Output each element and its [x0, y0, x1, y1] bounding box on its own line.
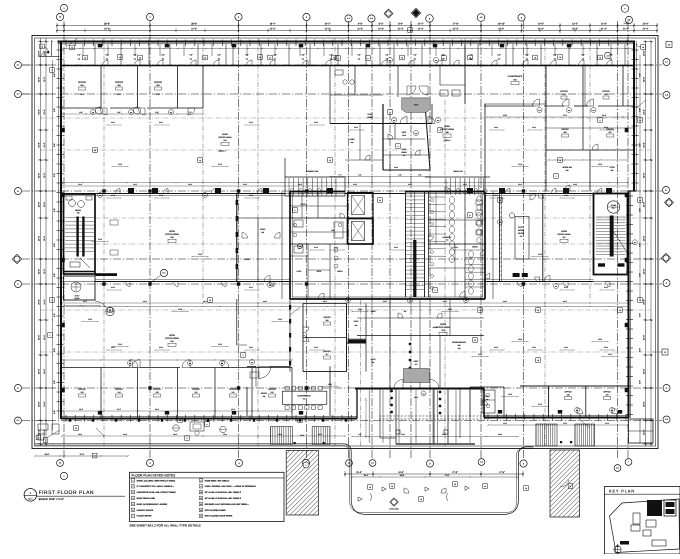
svg-text:24'-8": 24'-8" [38, 50, 41, 56]
sheet border inner [35, 38, 656, 446]
svg-text:9'-8": 9'-8" [53, 380, 56, 384]
terrace circles [173, 425, 179, 431]
keyed dots column x410 [409, 343, 411, 345]
svg-text:9'-8": 9'-8" [53, 208, 56, 212]
svg-text:19'-8": 19'-8" [398, 471, 404, 474]
svg-text:OFFICE: OFFICE [78, 388, 86, 391]
wall x238 between open area and rooms [236, 194, 238, 282]
svg-text:6 BOLLARD: 6 BOLLARD [389, 508, 399, 511]
svg-text:4.5: 4.5 [370, 17, 373, 20]
svg-text:OFFICE: OFFICE [323, 316, 331, 319]
svg-text:13: 13 [75, 427, 77, 430]
svg-text:104: 104 [592, 110, 594, 112]
svg-text:13: 13 [454, 483, 456, 486]
svg-text:9'-8": 9'-8" [639, 208, 642, 212]
svg-text:12'-8": 12'-8" [328, 383, 333, 386]
svg-text:13: 13 [71, 47, 73, 50]
svg-text:13: 13 [537, 309, 539, 312]
south wall window ticks (west part) [65, 415, 67, 422]
svg-text:15'-4": 15'-4" [364, 474, 369, 477]
stair S2 bottom blocks [598, 263, 605, 266]
exterior wall west [60, 41, 62, 419]
svg-text:13: 13 [469, 57, 471, 60]
svg-text:4.8: 4.8 [480, 16, 483, 19]
svg-text:9'-8": 9'-8" [53, 348, 56, 352]
svg-text:4.4: 4.4 [348, 462, 351, 465]
svg-text:9'-8": 9'-8" [413, 54, 417, 57]
exterior wall east upper [633, 41, 635, 191]
svg-text:13: 13 [119, 56, 121, 59]
svg-text:OPEN: OPEN [444, 125, 450, 128]
hatch circle tag [303, 462, 309, 468]
south wall window ticks (east part) [487, 414, 489, 421]
small rooms right of canopy [482, 390, 495, 413]
copy room doors [530, 194, 536, 200]
svg-text:207: 207 [609, 131, 612, 134]
svg-text:24'-8": 24'-8" [38, 236, 41, 242]
svg-text:6: 6 [444, 57, 445, 60]
grid bubble 2 [146, 13, 153, 20]
svg-text:12'-8": 12'-8" [538, 253, 543, 256]
lower office partitions [100, 368, 102, 419]
svg-text:12'-8": 12'-8" [218, 163, 223, 166]
top center extra tags [336, 56, 341, 61]
office front wall top-left [62, 107, 101, 109]
svg-text:21'-4": 21'-4" [398, 28, 404, 31]
svg-text:24'-8": 24'-8" [643, 202, 646, 208]
svg-text:104: 104 [269, 285, 271, 287]
copy room table [515, 217, 529, 260]
svg-text:13: 13 [499, 199, 501, 202]
svg-text:OFFICE: OFFICE [561, 128, 569, 131]
bottom right annex [629, 419, 654, 443]
stair S2 id circle [607, 201, 619, 213]
core walls [289, 192, 291, 300]
svg-text:OFFICE AREA: OFFICE AREA [165, 337, 179, 340]
svg-text:CONF.: CONF. [260, 228, 266, 231]
svg-text:6: 6 [133, 509, 134, 512]
svg-text:OFFICE: OFFICE [323, 350, 331, 353]
mens toilet above stair S1 [69, 200, 76, 207]
svg-text:104: 104 [389, 60, 391, 62]
svg-text:12'-4": 12'-4" [43, 401, 46, 406]
corridor C fixtures right [513, 273, 520, 277]
svg-text:OPEN: OPEN [440, 323, 446, 326]
north band keyed tags [83, 55, 88, 60]
svg-text:12'-4": 12'-4" [43, 109, 46, 114]
svg-text:WOMEN'S: WOMEN'S [443, 236, 452, 239]
left dimension lines [40, 38, 42, 446]
svg-text:9'-8": 9'-8" [53, 243, 56, 247]
svg-text:24'-8": 24'-8" [38, 77, 41, 83]
svg-text:118: 118 [326, 319, 329, 322]
office doors top-left [100, 108, 107, 115]
svg-text:12'-4": 12'-4" [43, 335, 46, 340]
svg-text:104: 104 [92, 112, 94, 114]
svg-text:121: 121 [232, 391, 235, 394]
B line pilaster blocks [128, 188, 134, 194]
svg-text:24'-8": 24'-8" [38, 109, 41, 115]
svg-text:B.4: B.4 [163, 272, 166, 275]
svg-text:7: 7 [243, 354, 244, 357]
small furniture marks open area [110, 220, 118, 225]
svg-text:9'-8": 9'-8" [639, 73, 642, 77]
svg-text:MEN'S 109: MEN'S 109 [453, 170, 462, 173]
svg-text:STAT ACCESS DOOR PANEL: STAT ACCESS DOOR PANEL [205, 515, 234, 518]
bottom site dimension row [345, 473, 523, 475]
svg-text:RM: RM [458, 344, 461, 347]
open area east boundary wall [484, 104, 486, 191]
svg-text:128: 128 [567, 394, 570, 397]
svg-text:8'-6": 8'-6" [155, 111, 159, 114]
svg-text:12'-8": 12'-8" [278, 318, 283, 321]
stair S1 room [64, 194, 96, 274]
svg-text:104: 104 [422, 393, 424, 395]
svg-text:14: 14 [200, 515, 202, 518]
svg-text:13: 13 [474, 339, 476, 342]
core door arcs [429, 236, 434, 241]
east wing extra detail [546, 127, 634, 129]
svg-text:11'-6": 11'-6" [117, 93, 122, 96]
svg-text:24'-8": 24'-8" [38, 299, 41, 305]
svg-text:14'-0": 14'-0" [414, 396, 419, 399]
plaza keyed tags [390, 484, 395, 489]
svg-text:21'-4": 21'-4" [104, 28, 110, 31]
grid bubble 6 [518, 14, 525, 21]
svg-text:24'-8": 24'-8" [38, 142, 41, 148]
terrace tags sw [36, 435, 41, 440]
svg-text:12'-2": 12'-2" [563, 114, 568, 117]
svg-text:OPEN: OPEN [169, 230, 175, 233]
svg-text:OFFICE AREA: OFFICE AREA [165, 233, 179, 236]
lower-left dim row above offices [62, 359, 292, 361]
svg-text:24'-8": 24'-8" [643, 369, 646, 375]
leader arrows scattered [66, 38, 78, 47]
grid diamond D2 (top, solid) [411, 8, 420, 17]
svg-text:104: 104 [221, 363, 223, 365]
svg-text:A.1: A.1 [17, 64, 20, 67]
svg-text:HOSE BIBB—RE: 6/8A6.2: HOSE BIBB—RE: 6/8A6.2 [205, 479, 231, 482]
south terrace dim row [62, 435, 345, 437]
canopy dim row [352, 436, 518, 438]
stair S3 rail [413, 240, 416, 297]
svg-text:OFFICE AREA: OFFICE AREA [557, 233, 571, 236]
svg-text:24'-8": 24'-8" [643, 269, 646, 275]
svg-text:D.2: D.2 [665, 418, 668, 421]
right wing doors [533, 99, 540, 106]
svg-text:12: 12 [38, 437, 40, 440]
exterior wall north [58, 41, 636, 43]
svg-text:9'-8": 9'-8" [639, 108, 642, 112]
svg-text:24'-8": 24'-8" [643, 50, 646, 56]
stair S1 treads [65, 217, 94, 219]
svg-text:21'-4": 21'-4" [418, 28, 424, 31]
svg-text:A.8: A.8 [665, 94, 668, 97]
svg-text:A.7: A.7 [665, 61, 668, 64]
stair S2 direction arrow [613, 230, 627, 252]
svg-text:101: 101 [403, 154, 406, 157]
svg-text:5: 5 [133, 503, 134, 506]
plaza dim line [352, 476, 518, 478]
svg-text:38'-8": 38'-8" [191, 23, 197, 26]
svg-text:OFFICE: OFFICE [78, 81, 87, 84]
exterior wall south west part [61, 418, 357, 420]
svg-text:15'-4": 15'-4" [356, 471, 362, 474]
key plan buildings [647, 500, 662, 516]
svg-text:13'-2": 13'-2" [572, 23, 578, 26]
svg-text:103: 103 [170, 236, 173, 239]
svg-text:12'-8": 12'-8" [518, 338, 523, 341]
svg-text:ROOM: ROOM [518, 232, 524, 235]
stair S2 room [594, 194, 628, 275]
grid bubble 3 [235, 13, 242, 20]
svg-text:104: 104 [409, 300, 411, 302]
svg-text:12'-2": 12'-2" [231, 408, 236, 411]
svg-text:9'-8": 9'-8" [133, 54, 137, 57]
svg-text:15'-8": 15'-8" [503, 114, 508, 117]
svg-text:13: 13 [329, 159, 331, 162]
terrace fountain cluster [190, 422, 204, 431]
terrace steps comb west2 [311, 427, 313, 445]
grid bubble 7 (top right) [621, 5, 629, 13]
north wall window mullions [65, 40, 67, 47]
svg-text:120: 120 [271, 391, 274, 394]
key plan site boundary [610, 499, 680, 553]
stair S2 handrail [610, 216, 614, 257]
svg-text:ELEV: ELEV [402, 148, 408, 151]
south wall column ticks [69, 419, 71, 422]
svg-text:200: 200 [605, 93, 608, 96]
svg-text:13: 13 [209, 299, 211, 302]
grid bubble 6.8 [625, 16, 632, 23]
bottom-right offices wall [548, 386, 550, 418]
svg-text:16'-10": 16'-10" [497, 23, 505, 26]
svg-text:104: 104 [576, 410, 578, 412]
svg-text:24'-8": 24'-8" [38, 335, 41, 341]
svg-text:12'-8": 12'-8" [518, 163, 523, 166]
svg-text:8'-0": 8'-0" [379, 23, 384, 26]
svg-text:202: 202 [513, 79, 516, 82]
right grid bubbles [666, 42, 672, 48]
svg-text:12'-4": 12'-4" [43, 77, 46, 82]
svg-text:12'-8": 12'-8" [358, 308, 363, 311]
svg-text:FLOOR PLAN KEYED NOTES: FLOOR PLAN KEYED NOTES [132, 474, 176, 478]
svg-text:24'-8": 24'-8" [643, 109, 646, 115]
svg-text:ROOF DRAIN LINE: ROOF DRAIN LINE [137, 497, 156, 500]
svg-text:21'-4": 21'-4" [378, 28, 384, 31]
svg-text:OFFICE: OFFICE [115, 81, 124, 84]
svg-text:ROOF ACCESS/ROOF LADDER: ROOF ACCESS/ROOF LADDER [137, 503, 168, 506]
svg-text:OFFICE AREA: OFFICE AREA [436, 326, 450, 329]
entry door tag circle [421, 391, 426, 396]
svg-text:CONFERENCE: CONFERENCE [297, 395, 311, 398]
entry dots column x391 [390, 390, 392, 392]
svg-text:9'-8": 9'-8" [161, 54, 165, 57]
svg-text:9: 9 [201, 485, 202, 488]
svg-text:10'-0": 10'-0" [642, 23, 648, 26]
east wall pilasters [625, 128, 629, 132]
lower office top wall [62, 367, 130, 369]
svg-text:CANOPY ABOVE: CANOPY ABOVE [137, 509, 154, 512]
conference room walls [246, 387, 248, 416]
svg-text:21'-4": 21'-4" [453, 28, 459, 31]
svg-text:13: 13 [525, 487, 527, 490]
key plan box [605, 487, 680, 555]
grid bubble 5 [426, 15, 434, 23]
lower office doors [130, 360, 138, 368]
core fixture circles [293, 223, 297, 227]
svg-text:104: 104 [251, 362, 253, 364]
svg-text:9'-8": 9'-8" [639, 273, 642, 277]
svg-text:104: 104 [499, 222, 501, 224]
grid diamond D1 (top) [384, 9, 393, 18]
central stair S3 [405, 192, 407, 297]
vestibule inner doors [400, 117, 407, 124]
exterior wall east lower [628, 191, 630, 418]
svg-text:OPEN: OPEN [169, 334, 175, 337]
svg-text:11'-6": 11'-6" [80, 93, 85, 96]
svg-text:COPY/: COPY/ [518, 226, 524, 229]
svg-text:17'-8": 17'-8" [499, 471, 505, 474]
svg-text:104: 104 [347, 300, 349, 302]
right dimension lines [645, 42, 647, 446]
svg-text:OFFICE: OFFICE [560, 90, 568, 93]
svg-text:24'-8": 24'-8" [643, 335, 646, 341]
svg-text:7'-0": 7'-0" [188, 111, 192, 114]
svg-text:8: 8 [201, 479, 202, 482]
elevator shaft E2 (second car) [348, 193, 374, 219]
svg-text:OFFICE: OFFICE [115, 388, 123, 391]
corridor wall west of core [281, 192, 283, 300]
svg-text:12'-8": 12'-8" [598, 163, 603, 166]
core upper dim marks [330, 176, 430, 178]
svg-text:104: 104 [538, 110, 540, 112]
svg-text:4: 4 [398, 145, 399, 148]
svg-text:6.6: 6.6 [616, 467, 619, 470]
svg-text:17'-8": 17'-8" [452, 23, 458, 26]
svg-text:2: 2 [50, 334, 51, 337]
right wing interior grid bubble [604, 52, 611, 59]
floor plan keyed notes table [130, 472, 285, 521]
exterior wall south east part [484, 417, 629, 419]
svg-text:9'-8": 9'-8" [105, 54, 109, 57]
svg-text:13: 13 [200, 509, 202, 512]
svg-text:FIRST FLOOR PLAN: FIRST FLOOR PLAN [39, 490, 94, 496]
svg-text:12'-8": 12'-8" [178, 308, 183, 311]
svg-text:FLOOR GRATE: FLOOR GRATE [137, 515, 152, 518]
svg-text:12'-6": 12'-6" [414, 104, 419, 107]
exterior wall south center recessed [356, 389, 358, 419]
svg-text:VEST: VEST [402, 131, 408, 134]
svg-text:12'-8": 12'-8" [118, 343, 123, 346]
svg-text:11: 11 [200, 497, 202, 500]
svg-text:102: 102 [170, 340, 173, 343]
gray vestibule rect (north) [402, 98, 431, 113]
svg-text:12'-2": 12'-2" [117, 408, 122, 411]
canopy extra columns [368, 390, 370, 443]
corridor C door arcs [125, 282, 130, 287]
svg-text:12'-8": 12'-8" [448, 308, 453, 311]
svg-text:A1.1: A1.1 [28, 497, 33, 500]
right wing dim row [487, 116, 628, 118]
svg-text:104: 104 [555, 286, 557, 288]
svg-text:13: 13 [534, 57, 536, 60]
svg-text:12'-8": 12'-8" [608, 353, 613, 356]
svg-text:9: 9 [295, 209, 296, 212]
svg-text:CORR: CORR [371, 310, 377, 313]
top dimension lines [57, 25, 657, 27]
svg-text:5: 5 [187, 437, 188, 440]
svg-text:21'-4": 21'-4" [498, 28, 504, 31]
svg-text:24'-8": 24'-8" [643, 401, 646, 407]
conference mid rooms [237, 217, 290, 219]
svg-text:28" ALUM. FLAGPOLE—RE: 12/8A3.: 28" ALUM. FLAGPOLE—RE: 12/8A3.2 [205, 491, 242, 494]
svg-text:LOBBY: LOBBY [401, 151, 408, 154]
pilaster wall x290 lower [289, 299, 291, 372]
svg-text:9: 9 [368, 57, 369, 60]
svg-text:12'-8": 12'-8" [88, 318, 93, 321]
south wall pilasters [98, 411, 102, 415]
copy room walls [499, 194, 501, 282]
svg-text:OFFICE: OFFICE [268, 388, 276, 391]
core keyed tags [293, 208, 298, 213]
svg-text:201: 201 [563, 93, 566, 96]
canopy column squares [396, 430, 400, 434]
left grid bubbles [15, 62, 22, 69]
svg-text:21'-4": 21'-4" [572, 28, 578, 31]
east wing west wall lower [545, 106, 547, 191]
svg-text:STOR: STOR [354, 320, 359, 323]
north band corridor wall [61, 65, 634, 67]
entry steps comb right [574, 424, 576, 446]
terrace boundary inner [35, 446, 534, 513]
svg-text:12: 12 [200, 503, 202, 506]
north band dim row [61, 48, 634, 50]
terrace boundary outer [35, 444, 534, 515]
svg-text:12'-8": 12'-8" [98, 238, 103, 241]
bottom mid room x470-504 [469, 387, 471, 418]
svg-text:9'-8": 9'-8" [53, 143, 56, 147]
toilet stalls east group [425, 176, 490, 178]
svg-text:STEEL COLUMN—SEE STRUCT. DWGS: STEEL COLUMN—SEE STRUCT. DWGS [137, 479, 176, 482]
svg-text:9'-8": 9'-8" [53, 73, 56, 77]
grid bubble 1.1A [56, 13, 63, 20]
svg-text:7: 7 [133, 515, 134, 518]
NE corner tags [641, 45, 646, 50]
svg-text:△7/8A4.2: △7/8A4.2 [443, 139, 450, 142]
secondary grid lines horizontal [40, 117, 650, 119]
svg-text:A.2: A.2 [17, 93, 20, 96]
svg-text:8" CONCRETE TILT—WALL PANELS—: 8" CONCRETE TILT—WALL PANELS— [137, 485, 175, 488]
svg-text:OFFICE: OFFICE [192, 388, 200, 391]
svg-text:ELEC: ELEC [297, 270, 302, 273]
keyed dots column x440 [439, 391, 441, 393]
bottom grid bubbles [57, 460, 64, 467]
svg-text:4.8: 4.8 [480, 461, 483, 464]
svg-text:13: 13 [619, 309, 621, 312]
svg-text:24'-8": 24'-8" [643, 299, 646, 305]
north band door arcs [103, 60, 109, 66]
svg-text:12'-4": 12'-4" [43, 236, 46, 241]
lower office dim row [62, 410, 292, 412]
svg-text:9'-8": 9'-8" [245, 54, 249, 57]
svg-text:13'-4": 13'-4" [155, 408, 160, 411]
svg-text:104: 104 [611, 410, 613, 412]
plaza door arcs [404, 488, 409, 493]
svg-text:KEY PLAN: KEY PLAN [609, 489, 635, 494]
elevator below stair S1 [64, 276, 96, 300]
svg-text:12'-8": 12'-8" [478, 353, 483, 356]
